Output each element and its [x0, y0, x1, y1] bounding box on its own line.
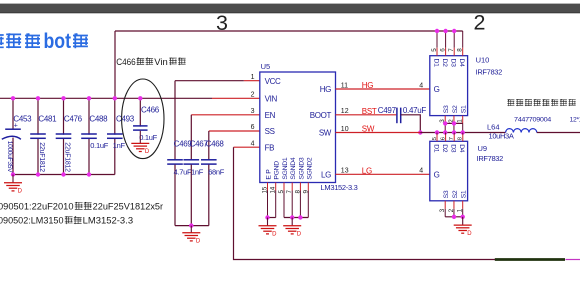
- svg-text:11: 11: [341, 82, 348, 89]
- svg-text:BOOT: BOOT: [310, 111, 332, 120]
- note 090502 (CJK): [0, 216, 133, 226]
- svg-text:S1: S1: [461, 190, 468, 198]
- transistor U10 IRF7832: [430, 55, 502, 115]
- svg-text:PGND: PGND: [274, 161, 281, 180]
- inductor L64 10uH3A: [487, 123, 537, 141]
- svg-text:C476: C476: [64, 114, 83, 123]
- svg-text:SGND1: SGND1: [282, 157, 289, 179]
- wire VCC to C469: [175, 81, 260, 161]
- svg-text:BST: BST: [362, 107, 377, 116]
- svg-text:2: 2: [474, 11, 486, 35]
- note: pour copper on bottom layer (blue CJK): [0, 30, 88, 53]
- capacitor C466 0.1uF: [133, 96, 160, 142]
- magenta wire tail at right edge: [566, 259, 580, 261]
- svg-text:IRF7832: IRF7832: [477, 154, 503, 163]
- note: place C466 near Vin (CJK): [116, 57, 185, 67]
- svg-text:HG: HG: [362, 81, 373, 90]
- ground D (U5 EP/PGND): [259, 218, 278, 238]
- ground D (U9 source): [454, 217, 473, 237]
- svg-text:SGND3: SGND3: [298, 157, 305, 179]
- wire SS to C468: [209, 131, 260, 160]
- U10 pin number 4 (gate): [419, 82, 423, 89]
- U5 left pin numbers 1 2 3 6 4: [251, 74, 255, 147]
- svg-text:090501:22uF2010: 090501:22uF2010: [0, 201, 74, 211]
- svg-text:13: 13: [341, 168, 349, 175]
- svg-text:4: 4: [251, 140, 255, 147]
- ground D (U5 SGND): [283, 218, 302, 238]
- svg-text:HG: HG: [320, 85, 331, 94]
- svg-text:6: 6: [251, 124, 255, 131]
- U10 source wires to SW: [435, 116, 465, 135]
- U9 source wires to ground: [445, 201, 465, 219]
- svg-text:C481: C481: [38, 114, 57, 123]
- wire FB feedback loop: [234, 147, 496, 259]
- note 090501 (CJK): [0, 201, 163, 211]
- U10 drain pin numbers 5 6 7 8: [431, 48, 464, 52]
- svg-text:D3: D3: [450, 59, 457, 68]
- wire VIN left vertical riser: [114, 31, 116, 98]
- svg-text:LM3152-3.3: LM3152-3.3: [83, 216, 134, 226]
- ground D (decoupling caps): [182, 226, 201, 245]
- svg-text:C488: C488: [89, 114, 108, 123]
- svg-text:D3: D3: [450, 144, 457, 153]
- wire ground bus below input caps: [13, 174, 115, 176]
- wire HG net: [336, 81, 430, 90]
- svg-text:1nF: 1nF: [191, 167, 204, 176]
- svg-text:Vin: Vin: [154, 57, 168, 67]
- wire SW output to edge: [537, 132, 580, 134]
- U5 bottom ground pin wires: [265, 183, 308, 220]
- svg-text:C453: C453: [13, 114, 32, 123]
- svg-text:S1: S1: [461, 105, 468, 113]
- svg-text:D: D: [272, 232, 277, 238]
- sheet zone numeral 2: [474, 11, 486, 35]
- svg-text:E P: E P: [266, 169, 273, 180]
- toolbar strip: [0, 4, 580, 14]
- capacitor C488 0.1uF: [81, 96, 108, 177]
- svg-text:VCC: VCC: [265, 77, 281, 86]
- svg-text:SW: SW: [319, 129, 332, 138]
- svg-text:2: 2: [251, 92, 255, 99]
- svg-text:EN: EN: [265, 111, 276, 120]
- svg-text:0.47uF: 0.47uF: [403, 106, 427, 115]
- wire EN to C467: [191, 115, 259, 160]
- thick olive net segment on FB line: [495, 258, 565, 261]
- svg-text:10uH3A: 10uH3A: [489, 132, 514, 141]
- capacitor C468 68nF: [201, 140, 225, 226]
- svg-text:4.7uF: 4.7uF: [174, 167, 192, 176]
- svg-text:C497: C497: [378, 106, 397, 115]
- wire VIN bus to U5 pin2: [0, 97, 260, 99]
- svg-text:D4: D4: [458, 59, 465, 68]
- svg-text:3: 3: [251, 108, 255, 115]
- svg-text:7447709004: 7447709004: [514, 117, 552, 124]
- svg-text:D1: D1: [432, 59, 439, 68]
- svg-text:L64: L64: [487, 123, 500, 132]
- svg-text:SW: SW: [362, 124, 375, 133]
- svg-text:SS: SS: [265, 127, 275, 136]
- wire BOOT net with BST label: [336, 107, 397, 116]
- wire C497 to SW node: [401, 115, 423, 135]
- svg-text:U5: U5: [261, 62, 271, 71]
- ground D (input bank): [4, 175, 23, 195]
- svg-text:090502:LM3150: 090502:LM3150: [0, 216, 64, 226]
- wire VIN top horizontal: [115, 30, 463, 32]
- U10 source pin numbers 3 2 1: [439, 119, 464, 123]
- svg-text:1000uF35V: 1000uF35V: [6, 141, 13, 173]
- capacitor C481 22uF1812: [30, 96, 57, 177]
- transistor U9 IRF7832: [430, 141, 503, 201]
- svg-text:bot: bot: [44, 30, 72, 53]
- capacitor C453 (electrolytic 1000uF35V): [2, 96, 32, 177]
- svg-text:4: 4: [419, 168, 423, 175]
- svg-text:S3: S3: [443, 105, 450, 113]
- sheet zone numeral 3: [216, 11, 228, 35]
- svg-text:S2: S2: [452, 190, 459, 198]
- svg-text:C466: C466: [116, 57, 136, 67]
- svg-text:U10: U10: [476, 55, 490, 64]
- capacitor C469 4.7uF: [167, 140, 192, 226]
- ground D (C466): [131, 131, 150, 155]
- svg-text:FB: FB: [265, 143, 275, 152]
- U9 pin number 4 (gate): [419, 168, 423, 175]
- svg-text:22uF1812: 22uF1812: [38, 142, 45, 172]
- wire joining C469/C467/C468 bottoms: [175, 223, 209, 227]
- U5 bottom pin names EP PGND SGND1 SGND4 SGND3 SGND2: [266, 157, 314, 179]
- inductor part number 7447709004 12*12: [514, 117, 580, 124]
- svg-text:VIN: VIN: [265, 94, 278, 103]
- svg-text:C493: C493: [116, 114, 135, 123]
- U10 drain wires to VIN: [435, 29, 463, 56]
- emphasis ellipse around C466: [122, 79, 164, 159]
- op-amp / regulator U5 LM3152-3.3: [260, 62, 358, 192]
- svg-text:D2: D2: [441, 59, 448, 68]
- svg-text:D4: D4: [458, 144, 465, 153]
- svg-text:4: 4: [419, 82, 423, 89]
- capacitor C497 0.47uF (bootstrap): [378, 106, 427, 123]
- wire LG net: [336, 166, 430, 175]
- svg-text:D: D: [297, 232, 302, 238]
- U9 drain wires from SW: [437, 133, 463, 142]
- svg-text:+: +: [14, 123, 18, 130]
- svg-text:12*12: 12*12: [570, 117, 580, 124]
- svg-text:LG: LG: [362, 166, 372, 175]
- svg-text:D: D: [18, 189, 23, 195]
- U5 bottom pin numbers 15 14 5 7 8 9: [262, 186, 310, 193]
- svg-text:12: 12: [341, 108, 349, 115]
- svg-text:U9: U9: [478, 144, 488, 153]
- svg-text:LM3152-3.3: LM3152-3.3: [321, 183, 358, 192]
- svg-text:10: 10: [341, 126, 349, 133]
- svg-text:G: G: [434, 85, 440, 94]
- capacitor C467 1nF: [184, 140, 209, 226]
- svg-text:IRF7832: IRF7832: [476, 67, 502, 76]
- svg-text:C468: C468: [206, 140, 225, 149]
- svg-text:22uF1812: 22uF1812: [64, 142, 71, 172]
- U5 right pin numbers 11 12 10 13: [341, 82, 349, 174]
- svg-text:LG: LG: [321, 170, 331, 179]
- svg-text:0.1uF: 0.1uF: [90, 141, 108, 150]
- note: inductor footprint (CJK): [507, 99, 575, 106]
- svg-text:SGND4: SGND4: [290, 157, 297, 179]
- U9 source pin numbers 3 2 1: [439, 208, 464, 212]
- svg-text:0.1uF: 0.1uF: [139, 133, 157, 142]
- svg-text:D: D: [196, 239, 201, 245]
- wire SW net: [336, 124, 506, 133]
- svg-text:S2: S2: [452, 105, 459, 113]
- capacitor C493 1nF: [107, 96, 135, 174]
- svg-text:D1: D1: [432, 144, 439, 153]
- svg-text:G: G: [434, 170, 440, 179]
- svg-text:D2: D2: [441, 144, 448, 153]
- svg-text:1nF: 1nF: [113, 141, 126, 150]
- U9 drain pin numbers 5 6 7 8: [432, 137, 464, 140]
- svg-text:D: D: [145, 149, 150, 155]
- svg-text:SGND2: SGND2: [306, 157, 313, 179]
- svg-text:68nF: 68nF: [208, 167, 225, 176]
- svg-text:22uF25V1812x5r: 22uF25V1812x5r: [93, 201, 164, 211]
- svg-text:C466: C466: [141, 106, 160, 115]
- capacitor C476 22uF1812: [56, 96, 83, 177]
- svg-text:D: D: [467, 231, 472, 237]
- svg-text:S3: S3: [443, 190, 450, 198]
- svg-text:1: 1: [251, 74, 255, 81]
